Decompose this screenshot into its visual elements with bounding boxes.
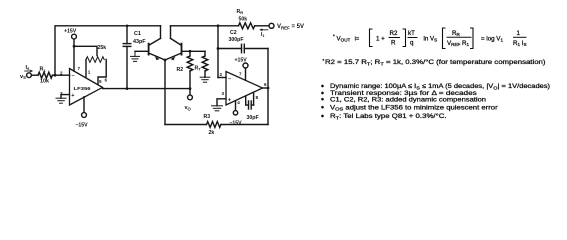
resistor R1 xyxy=(38,72,52,78)
wire output vertical xyxy=(267,49,269,125)
wire A2 summing vertical xyxy=(217,26,219,78)
capacitor C1 xyxy=(123,26,131,89)
op-amp A2 xyxy=(226,72,263,106)
wire feedback vertical xyxy=(55,26,161,75)
svg-text:I=: I= xyxy=(355,36,360,42)
svg-text:30pF: 30pF xyxy=(247,115,259,121)
bullet RT Tel Labs xyxy=(321,112,446,121)
svg-text:25k: 25k xyxy=(98,45,107,51)
svg-text:1: 1 xyxy=(517,30,521,37)
svg-text:C1, C2, R2, R3: added dynamic: C1, C2, R2, R3: added dynamic compensati… xyxy=(330,96,486,103)
wire Q1 collector xyxy=(160,26,162,39)
wire R2 leads xyxy=(189,51,191,88)
svg-text:R: R xyxy=(391,40,396,47)
wire pot end pin5 xyxy=(98,60,106,84)
svg-text:VOS adjust the LF356 to minimi: VOS adjust the LF356 to minimize quiesce… xyxy=(330,104,499,112)
node summing junction xyxy=(54,74,57,77)
arrow Is xyxy=(25,70,34,73)
wire A1 output xyxy=(103,88,191,90)
svg-text:= log V1: = log V1 xyxy=(481,35,503,42)
svg-text:6: 6 xyxy=(264,82,267,87)
svg-text:10k: 10k xyxy=(40,79,49,85)
svg-text:+15V: +15V xyxy=(64,28,77,34)
wire vs to R1 xyxy=(31,74,38,76)
svg-text:2k: 2k xyxy=(209,130,215,136)
wire pin3 stub xyxy=(61,95,70,99)
svg-text:C1: C1 xyxy=(134,31,141,37)
svg-text:Is: Is xyxy=(26,65,31,71)
terminal VO xyxy=(188,89,193,100)
svg-text:VREF R1: VREF R1 xyxy=(447,40,470,47)
svg-text:VOUT: VOUT xyxy=(337,35,351,42)
svg-text:7: 7 xyxy=(239,71,242,76)
potentiometer 25k xyxy=(86,57,104,63)
svg-text:+: + xyxy=(71,93,75,99)
svg-text:RT: RT xyxy=(195,65,202,71)
arrow I1 xyxy=(259,28,268,31)
wire A2 output xyxy=(263,87,269,89)
ground A1 pin3 xyxy=(56,98,66,103)
svg-text:1: 1 xyxy=(88,69,91,74)
terminal -15V A2 xyxy=(233,111,237,115)
wire pin2 stub A2 xyxy=(218,77,226,79)
node VO xyxy=(189,87,192,90)
svg-text:6: 6 xyxy=(105,77,108,82)
svg-text:4: 4 xyxy=(237,100,240,105)
svg-text:R2: R2 xyxy=(177,67,184,73)
svg-text:2: 2 xyxy=(220,72,223,77)
terminal VREF xyxy=(269,23,274,28)
svg-text:2: 2 xyxy=(60,71,63,76)
svg-text:+15V: +15V xyxy=(235,57,248,63)
resistor R3 xyxy=(207,122,221,128)
wire top bus right xyxy=(171,25,239,27)
svg-text:ln VS: ln VS xyxy=(424,35,438,42)
terminal +15V A1 xyxy=(72,34,77,39)
svg-text:kT: kT xyxy=(408,30,415,37)
wire pin3 stub A2 xyxy=(217,99,226,106)
wire emitters down xyxy=(164,60,166,125)
svg-text:8: 8 xyxy=(256,95,259,100)
svg-text:–15V: –15V xyxy=(230,121,243,127)
svg-text:vS: vS xyxy=(20,74,26,80)
svg-text:LF356: LF356 xyxy=(74,86,92,91)
op-amp A1 LF356 xyxy=(70,69,103,106)
svg-text:3: 3 xyxy=(222,91,225,96)
svg-text:q: q xyxy=(410,40,414,47)
svg-text:50k: 50k xyxy=(239,17,248,23)
svg-text:I1: I1 xyxy=(261,32,265,38)
bullet Vos adjust xyxy=(321,104,498,112)
wire pin7 stub A2 xyxy=(245,68,247,80)
wire R1 to pin2 xyxy=(52,74,69,76)
svg-text:1 +: 1 + xyxy=(376,35,385,42)
wire Q2 collector xyxy=(170,26,172,39)
ground Q1 base xyxy=(131,51,140,61)
wire pin7 to +15V xyxy=(73,39,75,71)
svg-text:RT: Tel Labs type Q81 + 0.3%/°: RT: Tel Labs type Q81 + 0.3%/°C. xyxy=(330,112,447,121)
svg-text:43pF: 43pF xyxy=(133,39,146,45)
node C1 top xyxy=(126,25,129,28)
capacitor 30pF xyxy=(246,93,254,109)
bullet dynamic range xyxy=(321,83,550,91)
wire pot wiper xyxy=(74,46,97,55)
svg-text:*: * xyxy=(333,33,335,38)
wire pin4 stub A1 xyxy=(83,97,85,113)
terminal -15V A1 xyxy=(82,113,87,118)
wire bottom right xyxy=(221,124,268,126)
bullet compensation xyxy=(321,96,486,103)
ground RT xyxy=(200,77,210,82)
node 15V junction xyxy=(73,45,76,48)
svg-text:–: – xyxy=(72,73,75,79)
svg-text:R1 IS: R1 IS xyxy=(513,40,527,47)
resistor R2 xyxy=(187,56,193,71)
node R2 top xyxy=(189,50,192,53)
node C1 bottom on output wire xyxy=(126,87,129,90)
svg-text:5: 5 xyxy=(99,79,102,84)
node emitters xyxy=(164,59,167,62)
resistor RT xyxy=(202,56,208,71)
capacitor C2 xyxy=(218,44,268,52)
svg-text:R1: R1 xyxy=(40,67,47,73)
svg-text:C2: C2 xyxy=(230,30,237,36)
svg-text:300pF: 300pF xyxy=(229,37,244,43)
wire bottom left xyxy=(165,124,207,126)
resistor RR xyxy=(239,23,255,29)
wire pin4 stub A2 xyxy=(235,101,237,111)
svg-text:–15V: –15V xyxy=(76,122,89,128)
terminal +15V A2 xyxy=(243,63,248,68)
input terminal vs xyxy=(27,73,32,78)
svg-text:RR: RR xyxy=(452,30,460,37)
svg-text:7: 7 xyxy=(78,66,81,71)
transistor Q1 xyxy=(135,38,165,60)
svg-text:VREF = 5V: VREF = 5V xyxy=(277,24,304,30)
node A2 summing xyxy=(217,24,220,27)
svg-text:RR: RR xyxy=(237,9,244,15)
svg-text:R2: R2 xyxy=(390,30,398,37)
node C2 tap xyxy=(217,47,220,50)
svg-text:–: – xyxy=(228,76,231,82)
wire pot end pin1 xyxy=(85,60,87,77)
svg-text:R2 = 15.7 RT; RT = 1k, 0.3%/°C: R2 = 15.7 RT; RT = 1k, 0.3%/°C (for temp… xyxy=(325,58,546,67)
ground A2 pin3 xyxy=(212,106,223,111)
svg-text:R3: R3 xyxy=(204,114,211,120)
formula Vout xyxy=(333,28,527,49)
bullet transient response xyxy=(321,90,477,97)
transistor Q2 xyxy=(165,38,205,60)
node A2 output xyxy=(267,87,270,90)
wire RT leads xyxy=(204,51,206,77)
note R2 temperature compensation xyxy=(323,58,546,67)
wire RR to VREF xyxy=(255,25,269,27)
svg-text:vO: vO xyxy=(185,105,192,111)
